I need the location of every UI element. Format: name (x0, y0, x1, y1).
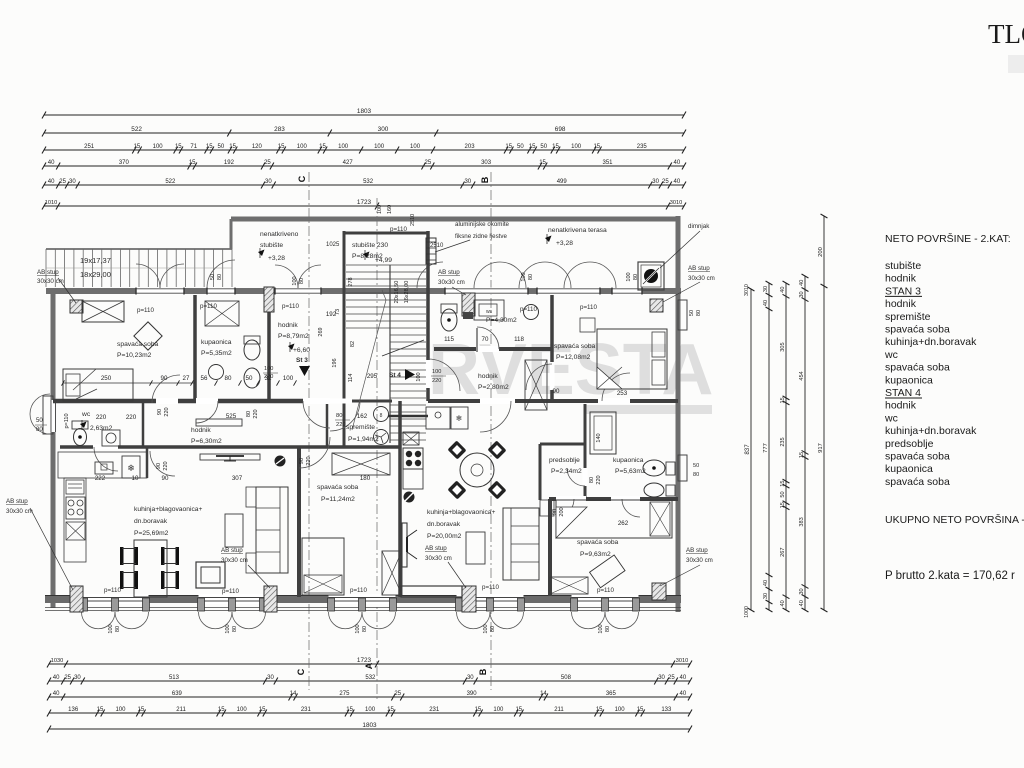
svg-text:30: 30 (267, 675, 274, 681)
svg-text:40: 40 (763, 300, 769, 306)
svg-text:30: 30 (799, 588, 805, 594)
svg-text:90: 90 (552, 509, 558, 515)
svg-text:30x30 cm: 30x30 cm (221, 557, 248, 564)
svg-text:A: A (364, 662, 374, 669)
svg-text:1803: 1803 (357, 108, 372, 115)
svg-text:118: 118 (514, 336, 524, 343)
svg-text:837: 837 (744, 444, 751, 455)
svg-text:P=25,69m2: P=25,69m2 (134, 530, 169, 537)
svg-text:40: 40 (53, 691, 60, 697)
svg-text:spavaća soba: spavaća soba (117, 341, 159, 348)
svg-text:50: 50 (540, 144, 547, 150)
svg-text:AB stup: AB stup (6, 498, 28, 505)
svg-text:25: 25 (662, 179, 669, 185)
svg-text:90: 90 (157, 409, 163, 415)
svg-text:spavaća soba: spavaća soba (885, 324, 950, 336)
svg-text:predsoblje: predsoblje (885, 438, 934, 450)
svg-text:196: 196 (332, 358, 338, 367)
svg-text:St 3: St 3 (296, 357, 308, 364)
svg-text:3010: 3010 (744, 284, 750, 296)
svg-text:+3,28: +3,28 (268, 255, 285, 262)
svg-text:19x17,37: 19x17,37 (80, 256, 111, 265)
svg-text:30x30 cm: 30x30 cm (425, 555, 452, 562)
svg-text:80: 80 (225, 375, 232, 382)
svg-text:1723: 1723 (357, 199, 372, 206)
svg-text:231: 231 (301, 707, 312, 713)
svg-text:aluminijske okomite: aluminijske okomite (455, 221, 510, 228)
svg-text:100: 100 (365, 707, 376, 713)
svg-text:251: 251 (84, 144, 95, 150)
svg-text:kupaonica: kupaonica (613, 457, 644, 464)
svg-text:25: 25 (64, 675, 71, 681)
svg-text:40: 40 (780, 600, 786, 606)
svg-text:spavaća soba: spavaća soba (885, 451, 950, 463)
svg-text:80: 80 (362, 626, 368, 632)
svg-text:203: 203 (465, 144, 476, 150)
svg-text:40: 40 (799, 280, 805, 286)
svg-text:220: 220 (596, 475, 602, 484)
svg-text:TLOCRT 2.KATA: TLOCRT 2.KATA (988, 19, 1024, 49)
svg-text:100: 100 (626, 272, 632, 281)
svg-text:P=2,34m2: P=2,34m2 (551, 468, 582, 475)
svg-text:100: 100 (355, 624, 361, 633)
svg-text:220: 220 (163, 461, 169, 470)
svg-text:698: 698 (555, 126, 566, 133)
svg-text:+3,28: +3,28 (556, 240, 573, 247)
svg-text:100: 100 (483, 624, 489, 633)
svg-text:kuhinja+dn.boravak: kuhinja+dn.boravak (885, 336, 977, 348)
svg-text:283: 283 (274, 126, 285, 133)
svg-text:30x30 cm: 30x30 cm (688, 275, 715, 282)
svg-text:100: 100 (571, 144, 582, 150)
svg-text:AB stup: AB stup (37, 269, 59, 276)
svg-text:P=9,63m2: P=9,63m2 (580, 551, 611, 558)
svg-text:P=5,63m2: P=5,63m2 (615, 468, 646, 475)
svg-text:90: 90 (553, 388, 560, 395)
svg-text:P=1,94m2: P=1,94m2 (348, 436, 379, 443)
svg-text:wc: wc (884, 349, 898, 361)
svg-text:160: 160 (387, 205, 393, 214)
svg-text:ws: ws (486, 309, 493, 315)
svg-text:40: 40 (53, 675, 60, 681)
svg-text:70: 70 (482, 336, 489, 343)
svg-text:639: 639 (172, 691, 183, 697)
svg-text:50: 50 (693, 463, 699, 469)
svg-text:St 4: St 4 (389, 372, 401, 379)
svg-text:C: C (297, 175, 307, 182)
svg-text:❄: ❄ (127, 463, 135, 473)
svg-text:30: 30 (464, 179, 471, 185)
svg-text:spavaća soba: spavaća soba (885, 362, 950, 374)
svg-text:80: 80 (528, 274, 534, 280)
svg-text:30: 30 (69, 179, 76, 185)
svg-text:30: 30 (467, 675, 474, 681)
svg-text:stubište: stubište (260, 242, 283, 249)
svg-text:kuhinja+blagovaonica+: kuhinja+blagovaonica+ (134, 506, 203, 513)
svg-text:80: 80 (696, 310, 702, 316)
svg-text:522: 522 (165, 179, 176, 185)
svg-text:100: 100 (108, 624, 114, 633)
svg-text:3010: 3010 (670, 200, 682, 206)
svg-text:p=110: p=110 (520, 306, 537, 313)
svg-text:1803: 1803 (362, 722, 377, 729)
svg-text:100: 100 (615, 707, 626, 713)
svg-text:30x30 cm: 30x30 cm (438, 279, 465, 286)
svg-text:220: 220 (96, 414, 107, 421)
svg-text:AB stup: AB stup (221, 547, 243, 554)
svg-text:AB stup: AB stup (688, 265, 710, 272)
svg-text:25: 25 (425, 160, 432, 166)
svg-text:351: 351 (602, 160, 613, 166)
svg-text:❄: ❄ (456, 414, 463, 423)
svg-text:30: 30 (763, 286, 769, 292)
svg-text:200: 200 (818, 247, 824, 257)
svg-text:30: 30 (265, 179, 272, 185)
svg-text:513: 513 (169, 675, 180, 681)
svg-text:133: 133 (661, 707, 672, 713)
svg-text:30: 30 (652, 179, 659, 185)
svg-text:80: 80 (217, 274, 223, 280)
svg-text:P=4,30m2: P=4,30m2 (486, 317, 517, 324)
svg-text:73: 73 (335, 309, 341, 315)
svg-text:30: 30 (763, 593, 769, 599)
svg-text:100: 100 (225, 624, 231, 633)
svg-text:100: 100 (377, 205, 383, 214)
svg-text:40: 40 (674, 160, 681, 166)
svg-text:30x30 cm: 30x30 cm (37, 278, 64, 285)
svg-text:10: 10 (132, 475, 139, 482)
svg-text:211: 211 (554, 707, 564, 713)
svg-text:427: 427 (343, 160, 354, 166)
svg-text:kupaonica: kupaonica (885, 374, 933, 386)
svg-text:278: 278 (348, 277, 354, 286)
svg-text:200: 200 (559, 507, 565, 516)
svg-text:25: 25 (264, 160, 271, 166)
svg-text:hodnik: hodnik (885, 298, 917, 310)
svg-text:AB stup: AB stup (438, 269, 460, 276)
svg-text:917: 917 (818, 443, 824, 453)
svg-text:100: 100 (338, 144, 349, 150)
svg-text:235: 235 (637, 144, 648, 150)
svg-text:100: 100 (374, 144, 385, 150)
svg-text:P=20,00m2: P=20,00m2 (427, 533, 462, 540)
svg-text:27: 27 (183, 375, 190, 382)
svg-text:+6,60: +6,60 (293, 347, 310, 354)
svg-text:1000: 1000 (744, 606, 750, 618)
svg-text:UKUPNO NETO POVRŠINA - 2: UKUPNO NETO POVRŠINA - 2 (885, 513, 1024, 526)
svg-text:p=110: p=110 (482, 584, 499, 591)
svg-text:spavaća soba: spavaća soba (317, 484, 359, 491)
svg-text:120: 120 (252, 144, 263, 150)
svg-text:114: 114 (348, 374, 354, 383)
svg-text:100: 100 (237, 707, 248, 713)
svg-text:30: 30 (658, 675, 665, 681)
svg-text:100: 100 (432, 369, 441, 375)
svg-text:p=110: p=110 (597, 587, 614, 594)
svg-text:50: 50 (780, 491, 786, 497)
svg-text:90: 90 (161, 375, 168, 382)
svg-text:80: 80 (589, 477, 595, 483)
svg-text:100: 100 (493, 707, 504, 713)
svg-text:hodnik: hodnik (278, 322, 298, 329)
svg-text:100: 100 (153, 144, 164, 150)
svg-text:p=110: p=110 (282, 303, 299, 310)
svg-text:1010: 1010 (45, 200, 57, 206)
svg-text:80: 80 (232, 626, 238, 632)
svg-text:269: 269 (318, 327, 324, 336)
svg-text:p=110: p=110 (200, 303, 217, 310)
svg-text:525: 525 (226, 413, 237, 420)
svg-text:P=11,24m2: P=11,24m2 (321, 496, 355, 503)
svg-text:222: 222 (95, 475, 106, 482)
svg-text:56: 56 (201, 375, 208, 382)
svg-text:100: 100 (521, 272, 527, 281)
svg-text:30x30 cm: 30x30 cm (686, 557, 713, 564)
svg-text:2510: 2510 (410, 214, 416, 226)
svg-text:303: 303 (481, 160, 492, 166)
svg-text:220: 220 (306, 456, 312, 465)
svg-text:100: 100 (115, 707, 126, 713)
svg-text:80: 80 (336, 413, 342, 419)
svg-text:307: 307 (232, 475, 243, 482)
svg-text:50: 50 (210, 274, 216, 280)
svg-text:p=110: p=110 (104, 587, 121, 594)
svg-text:25: 25 (394, 691, 401, 697)
svg-text:kuhinja+blagovaonica+: kuhinja+blagovaonica+ (427, 509, 496, 516)
svg-text:wc: wc (81, 411, 91, 418)
svg-text:dn.boravak: dn.boravak (134, 518, 168, 525)
svg-text:30: 30 (74, 675, 81, 681)
svg-text:B: B (478, 668, 488, 675)
svg-text:532: 532 (365, 675, 376, 681)
svg-text:40: 40 (763, 580, 769, 586)
svg-text:+4,99: +4,99 (375, 257, 392, 264)
svg-text:90: 90 (299, 458, 305, 464)
svg-text:777: 777 (763, 443, 769, 453)
svg-text:522: 522 (131, 126, 142, 133)
svg-text:220: 220 (126, 414, 137, 421)
svg-text:82: 82 (350, 341, 356, 347)
svg-text:262: 262 (618, 520, 629, 527)
svg-text:P=6,30m2: P=6,30m2 (191, 438, 222, 445)
svg-text:P=12,08m2: P=12,08m2 (556, 354, 591, 361)
svg-text:80: 80 (490, 626, 496, 632)
svg-text:3010: 3010 (676, 658, 688, 664)
svg-text:18x29,00: 18x29,00 (80, 270, 111, 279)
svg-text:267: 267 (780, 548, 786, 557)
svg-text:1723: 1723 (357, 657, 372, 664)
svg-text:90: 90 (156, 463, 162, 469)
svg-text:dimnjak: dimnjak (688, 223, 710, 230)
svg-text:p=110: p=110 (580, 304, 597, 311)
svg-text:80: 80 (115, 626, 121, 632)
svg-text:B: B (480, 176, 490, 183)
svg-text:100: 100 (283, 375, 294, 382)
svg-text:30x30 cm: 30x30 cm (6, 508, 33, 515)
svg-text:50: 50 (218, 144, 225, 150)
svg-text:40: 40 (780, 287, 786, 293)
svg-text:136: 136 (68, 707, 79, 713)
svg-text:kupaonica: kupaonica (201, 339, 232, 346)
svg-text:hodnik: hodnik (478, 373, 498, 380)
svg-text:fiksne zidne ljestve: fiksne zidne ljestve (455, 233, 507, 240)
svg-text:p=110: p=110 (222, 588, 239, 595)
svg-text:40: 40 (680, 691, 687, 697)
svg-text:p=110: p=110 (137, 307, 154, 314)
svg-text:16x28,00: 16x28,00 (404, 281, 410, 304)
svg-text:stubište 230: stubište 230 (352, 242, 388, 249)
svg-text:100: 100 (598, 624, 604, 633)
svg-text:kuhinja+dn.boravak: kuhinja+dn.boravak (885, 425, 977, 437)
svg-text:spremište: spremište (885, 311, 931, 323)
svg-text:220: 220 (164, 407, 170, 416)
svg-text:P=8,79m2: P=8,79m2 (278, 333, 309, 340)
svg-text:25: 25 (668, 675, 675, 681)
svg-text:300: 300 (378, 126, 389, 133)
svg-text:nenatkrivena terasa: nenatkrivena terasa (548, 227, 607, 234)
svg-text:30: 30 (799, 291, 805, 297)
svg-text:532: 532 (363, 179, 374, 185)
svg-text:80: 80 (299, 278, 305, 284)
svg-text:AB stup: AB stup (686, 547, 708, 554)
svg-text:20x16,50: 20x16,50 (394, 281, 400, 304)
svg-text:80: 80 (605, 626, 611, 632)
svg-text:p=110: p=110 (64, 413, 70, 428)
svg-text:predsoblje: predsoblje (549, 457, 580, 464)
svg-text:hodnik: hodnik (885, 400, 917, 412)
svg-text:162: 162 (357, 413, 368, 420)
svg-text:499: 499 (557, 179, 568, 185)
svg-text:dn.boravak: dn.boravak (427, 521, 461, 528)
svg-text:180: 180 (360, 475, 371, 482)
svg-text:spavaća soba: spavaća soba (577, 539, 619, 546)
svg-text:40: 40 (674, 179, 681, 185)
svg-text:spremište: spremište (346, 424, 375, 431)
svg-text:211: 211 (176, 707, 186, 713)
svg-text:100: 100 (264, 366, 273, 372)
svg-text:40: 40 (799, 600, 805, 606)
svg-text:40: 40 (48, 160, 55, 166)
svg-text:RVESTA: RVESTA (428, 330, 713, 410)
svg-text:100: 100 (410, 144, 421, 150)
svg-text:50: 50 (246, 375, 253, 382)
svg-text:C: C (296, 668, 306, 675)
svg-text:2510: 2510 (430, 243, 444, 249)
svg-text:8: 8 (380, 413, 383, 419)
svg-text:220: 220 (336, 422, 346, 428)
svg-text:80: 80 (633, 274, 639, 280)
svg-text:140: 140 (596, 433, 602, 442)
svg-text:220: 220 (432, 378, 441, 384)
svg-text:100: 100 (416, 372, 422, 381)
svg-text:235: 235 (780, 437, 786, 446)
svg-text:p=110: p=110 (390, 226, 407, 233)
svg-text:275: 275 (339, 691, 350, 697)
svg-text:25: 25 (59, 179, 66, 185)
svg-text:100: 100 (297, 144, 308, 150)
svg-text:nenatkriveno: nenatkriveno (260, 231, 299, 238)
svg-text:295: 295 (367, 373, 378, 380)
svg-text:305: 305 (780, 342, 786, 351)
svg-text:P=10,23m2: P=10,23m2 (117, 352, 152, 359)
svg-text:P=2,80m2: P=2,80m2 (478, 384, 509, 391)
svg-text:STAN 3: STAN 3 (885, 285, 921, 297)
svg-text:stubište: stubište (885, 260, 921, 272)
svg-text:192: 192 (224, 160, 235, 166)
svg-text:508: 508 (561, 675, 572, 681)
svg-text:40: 40 (48, 179, 55, 185)
svg-text:spavaća soba: spavaća soba (554, 343, 596, 350)
svg-text:253: 253 (617, 390, 628, 397)
svg-text:1025: 1025 (326, 242, 340, 248)
svg-text:50: 50 (689, 310, 695, 316)
svg-text:P=5,35m2: P=5,35m2 (201, 350, 232, 357)
svg-text:100: 100 (292, 276, 298, 285)
svg-text:80: 80 (36, 427, 43, 433)
svg-text:p=110: p=110 (350, 587, 367, 594)
svg-text:2,63m2: 2,63m2 (90, 425, 113, 432)
svg-text:71: 71 (190, 144, 197, 150)
svg-text:90: 90 (162, 475, 169, 482)
svg-text:NETO POVRŠINE - 2.KAT:: NETO POVRŠINE - 2.KAT: (885, 232, 1011, 245)
svg-text:1030: 1030 (51, 658, 63, 664)
svg-text:spavaća soba: spavaća soba (885, 476, 950, 488)
svg-text:80: 80 (693, 472, 699, 478)
svg-text:kupaonica: kupaonica (885, 463, 933, 475)
svg-text:370: 370 (119, 160, 130, 166)
svg-text:hodnik: hodnik (885, 273, 917, 285)
svg-text:365: 365 (606, 691, 617, 697)
svg-text:390: 390 (467, 691, 478, 697)
svg-text:454: 454 (799, 371, 805, 380)
svg-text:220: 220 (264, 374, 273, 380)
svg-text:AB stup: AB stup (425, 545, 447, 552)
svg-text:40: 40 (680, 675, 687, 681)
svg-text:hodnik: hodnik (191, 427, 211, 434)
svg-text:50: 50 (517, 144, 524, 150)
svg-text:wc: wc (884, 412, 898, 424)
svg-text:250: 250 (101, 375, 112, 382)
svg-text:80: 80 (246, 411, 252, 417)
svg-text:50: 50 (36, 418, 43, 424)
svg-text:STAN 4: STAN 4 (885, 387, 921, 399)
svg-text:383: 383 (799, 517, 805, 526)
svg-text:115: 115 (444, 336, 454, 343)
svg-text:220: 220 (253, 409, 259, 418)
svg-text:231: 231 (429, 707, 440, 713)
svg-text:P brutto 2.kata = 170,62 r: P brutto 2.kata = 170,62 r (885, 570, 1015, 582)
